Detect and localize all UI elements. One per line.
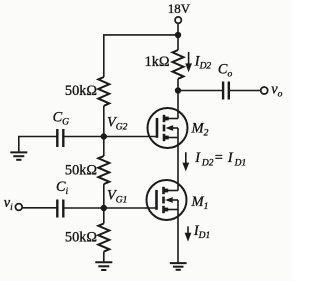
wire VG1 to 50k bottom [103, 208, 105, 224]
ground (left of CG) [10, 152, 27, 159]
ground (below bottom 50k) [95, 262, 112, 270]
svg-text:18V: 18V [168, 1, 191, 16]
node output junction (drain M2 / Co) [175, 87, 181, 93]
wire 50k bottom to ground [103, 252, 105, 263]
terminal vi [15, 204, 22, 211]
capacitor Co [223, 82, 229, 100]
wire Ci to VG1 [63, 207, 104, 209]
svg-text:ID2: ID2 [194, 54, 212, 72]
resistor R 1k [173, 50, 184, 79]
svg-text:VG2: VG2 [107, 115, 128, 133]
node VG1 junction [101, 205, 107, 211]
capacitor Ci [57, 200, 63, 218]
terminal vo [261, 87, 268, 94]
svg-text:vo: vo [271, 81, 282, 99]
wire gate M1 from VG1 [104, 207, 157, 209]
wire source M1 to ground [177, 210, 179, 264]
wire gate M2 from VG2 [104, 136, 157, 138]
wire top rail to 1k [177, 35, 179, 50]
svg-text:Ci: Ci [56, 179, 69, 197]
transistor M2 (NMOS) [148, 108, 188, 148]
svg-text:Co: Co [218, 61, 233, 79]
current arrow ID2 (at 1k) [185, 52, 192, 72]
svg-text:50kΩ: 50kΩ [65, 229, 97, 245]
18V terminal [175, 17, 181, 23]
wire VG2 to 50k middle [103, 137, 105, 157]
svg-text:vi: vi [4, 195, 13, 213]
svg-text:50kΩ: 50kΩ [65, 83, 97, 99]
wire CG left to ground stub [19, 137, 58, 153]
resistor R 50k (bottom) [98, 224, 109, 252]
node VG2 junction [101, 133, 107, 139]
svg-text:CG: CG [53, 110, 70, 128]
wire vi to Ci [22, 207, 57, 209]
current arrow ID1 [185, 226, 192, 241]
wire 18V terminal to top rail [177, 23, 179, 35]
current arrow ID2=ID1 (between M2,M1) [182, 152, 189, 171]
wire Co to vo terminal [229, 90, 261, 92]
junction top rail / 1k resistor [175, 32, 181, 38]
svg-text:VG1: VG1 [107, 187, 127, 205]
ground (below M1 source) [170, 263, 187, 270]
wire 50k middle to VG1 [103, 184, 105, 208]
capacitor CG [57, 129, 63, 147]
svg-text:ID1: ID1 [193, 223, 210, 241]
wire 50k top to VG2 [103, 106, 105, 137]
svg-text:1kΩ: 1kΩ [145, 54, 170, 70]
wire output node to Co [178, 90, 223, 92]
wire CG to VG2 [63, 136, 104, 138]
svg-text:M2: M2 [191, 121, 209, 139]
resistor R 50k (middle) [98, 156, 109, 184]
svg-text:ID2=ID1: ID2=ID1 [194, 150, 246, 168]
svg-text:50kΩ: 50kΩ [65, 162, 97, 178]
wire top rail horizontal [104, 35, 178, 77]
wire 1k to output node [177, 79, 179, 91]
transistor M1 (NMOS) [147, 180, 187, 220]
svg-text:M1: M1 [191, 194, 209, 212]
wire drain M2 (from output node) [177, 91, 179, 119]
wire source M2 to drain M1 [177, 138, 179, 191]
resistor R 50k (top) [98, 77, 109, 106]
